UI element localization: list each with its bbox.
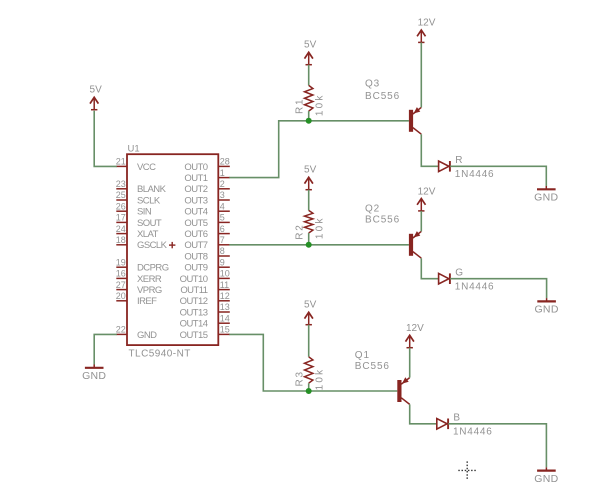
svg-text:BC556: BC556	[365, 214, 400, 225]
svg-text:GSCLK: GSCLK	[137, 240, 168, 251]
svg-text:19: 19	[116, 257, 126, 267]
svg-text:10k: 10k	[315, 93, 326, 116]
svg-text:5V: 5V	[304, 300, 317, 311]
svg-text:5V: 5V	[90, 85, 103, 96]
svg-text:OUT12: OUT12	[180, 296, 208, 307]
svg-text:1: 1	[220, 168, 225, 178]
svg-text:U1: U1	[128, 144, 140, 155]
svg-text:17: 17	[116, 213, 126, 223]
svg-text:8: 8	[220, 246, 225, 256]
svg-text:OUT3: OUT3	[184, 195, 207, 206]
svg-text:6: 6	[220, 224, 225, 234]
svg-text:22: 22	[116, 325, 126, 335]
svg-text:26: 26	[116, 201, 126, 211]
svg-text:1N4446: 1N4446	[455, 282, 495, 293]
svg-text:VCC: VCC	[137, 162, 156, 173]
svg-text:SOUT: SOUT	[137, 218, 162, 229]
svg-text:G: G	[455, 268, 463, 279]
svg-text:2: 2	[220, 179, 225, 189]
svg-text:OUT7: OUT7	[184, 240, 207, 251]
svg-text:B: B	[453, 413, 460, 424]
svg-text:25: 25	[116, 190, 126, 200]
svg-text:1N4446: 1N4446	[453, 427, 493, 438]
svg-text:5V: 5V	[304, 165, 317, 176]
svg-text:27: 27	[116, 280, 126, 290]
svg-text:TLC5940-NT: TLC5940-NT	[129, 349, 191, 360]
svg-text:Q1: Q1	[355, 350, 370, 361]
svg-text:10k: 10k	[315, 368, 326, 391]
svg-text:R2: R2	[294, 223, 305, 239]
svg-text:OUT10: OUT10	[180, 274, 208, 285]
svg-text:12: 12	[220, 291, 230, 301]
svg-text:OUT14: OUT14	[180, 319, 208, 330]
svg-text:OUT6: OUT6	[184, 229, 207, 240]
svg-text:OUT0: OUT0	[184, 162, 207, 173]
svg-text:OUT13: OUT13	[180, 307, 208, 318]
svg-text:11: 11	[220, 280, 229, 290]
svg-text:GND: GND	[82, 370, 106, 382]
svg-text:9: 9	[220, 257, 225, 267]
svg-text:23: 23	[116, 179, 126, 189]
svg-text:OUT15: OUT15	[180, 330, 208, 341]
svg-text:OUT4: OUT4	[184, 207, 207, 218]
svg-text:GND: GND	[534, 473, 558, 485]
svg-text:OUT11: OUT11	[180, 285, 207, 296]
svg-text:Q3: Q3	[365, 79, 380, 90]
svg-text:BC556: BC556	[365, 91, 400, 102]
svg-text:24: 24	[116, 224, 126, 234]
svg-text:SCLK: SCLK	[137, 195, 161, 206]
svg-text:14: 14	[220, 313, 230, 323]
svg-text:5V: 5V	[304, 40, 317, 51]
svg-text:16: 16	[116, 269, 126, 279]
svg-text:1N4446: 1N4446	[455, 169, 495, 180]
svg-text:28: 28	[220, 157, 230, 167]
svg-text:DCPRG: DCPRG	[137, 263, 169, 274]
svg-text:OUT9: OUT9	[184, 263, 207, 274]
svg-text:20: 20	[116, 291, 126, 301]
svg-text:R1: R1	[294, 98, 305, 114]
svg-text:13: 13	[220, 302, 230, 312]
svg-text:10k: 10k	[315, 216, 326, 239]
svg-text:21: 21	[116, 157, 126, 167]
svg-text:BLANK: BLANK	[137, 184, 167, 195]
svg-text:R3: R3	[294, 370, 305, 386]
svg-text:R: R	[455, 155, 462, 166]
svg-text:10: 10	[220, 269, 230, 279]
svg-text:OUT5: OUT5	[184, 218, 207, 229]
svg-text:GND: GND	[534, 304, 558, 316]
svg-text:7: 7	[220, 235, 225, 245]
svg-text:15: 15	[220, 325, 230, 335]
svg-text:12V: 12V	[418, 187, 436, 198]
svg-text:4: 4	[220, 201, 225, 211]
svg-text:OUT2: OUT2	[184, 184, 207, 195]
svg-text:IREF: IREF	[137, 296, 157, 307]
svg-text:12V: 12V	[406, 323, 424, 334]
svg-text:OUT8: OUT8	[184, 251, 207, 262]
svg-text:3: 3	[220, 190, 225, 200]
svg-text:5: 5	[220, 213, 225, 223]
svg-text:VPRG: VPRG	[137, 285, 162, 296]
svg-text:SIN: SIN	[137, 207, 152, 218]
svg-text:XLAT: XLAT	[137, 229, 159, 240]
svg-text:Q2: Q2	[365, 204, 380, 215]
svg-text:XERR: XERR	[137, 274, 162, 285]
svg-text:OUT1: OUT1	[184, 173, 207, 184]
svg-text:GND: GND	[534, 192, 558, 204]
svg-text:GND: GND	[137, 330, 157, 341]
svg-text:12V: 12V	[418, 18, 436, 29]
svg-text:BC556: BC556	[355, 361, 390, 372]
svg-text:18: 18	[116, 235, 126, 245]
